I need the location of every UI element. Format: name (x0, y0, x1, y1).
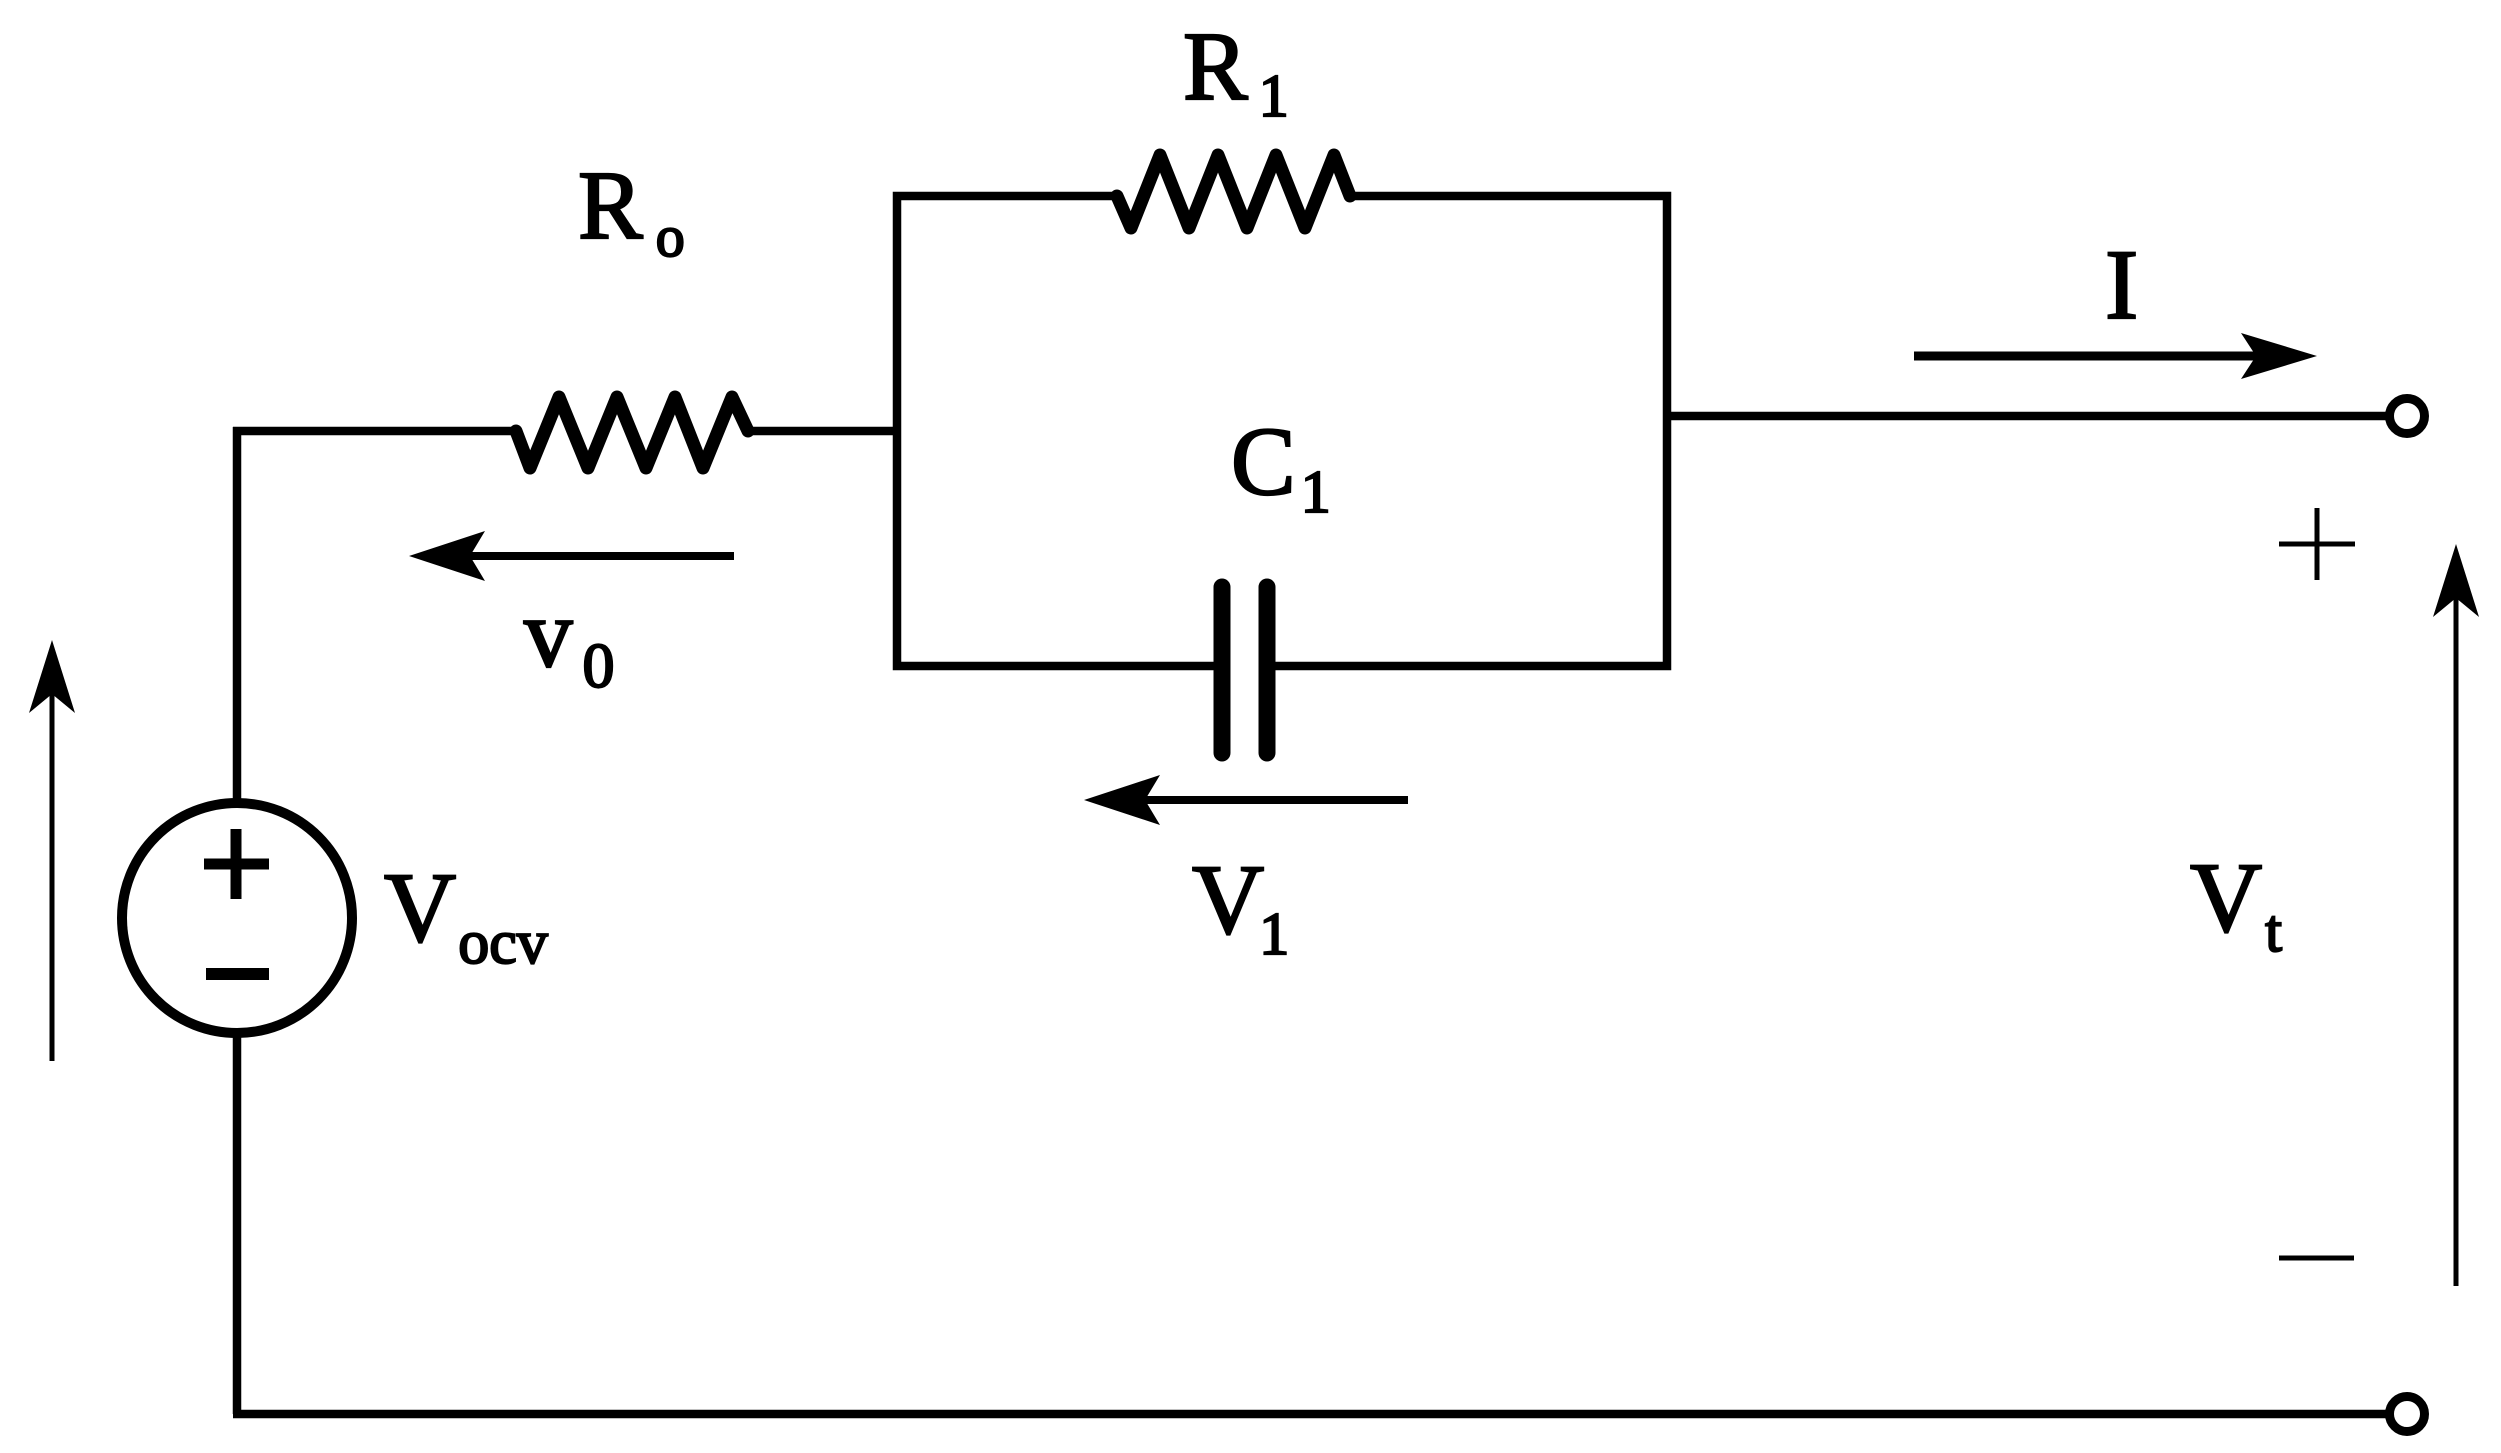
plus sign Vt (2279, 508, 2355, 580)
arrow Vt (terminal voltage, pointing up) (2433, 544, 2479, 1286)
resistor Ro (516, 397, 748, 468)
wire left vertical upper (source + to top wire) (233, 427, 242, 803)
arrow left (source polarity, pointing up) (29, 640, 75, 1061)
wire left vertical lower (source - to bottom wire) (233, 1033, 242, 1414)
arrow I (current direction) (1914, 333, 2317, 379)
capacitor C1 (1222, 587, 1267, 753)
arrow v0 (voltage across Ro, pointing left) (409, 531, 734, 581)
minus sign Vt (2279, 1256, 2354, 1261)
plus sign inside source (204, 829, 269, 899)
minus sign inside source (206, 968, 269, 980)
voltage source Vocv (122, 803, 352, 1033)
terminal top-right (2390, 399, 2425, 434)
wire bottom horizontal (233, 1410, 2387, 1419)
wire from Ro to RC block (748, 427, 897, 436)
wire top-left horizontal from source branch to Ro (233, 427, 516, 436)
arrow V1 (voltage across C1, pointing left) (1084, 775, 1408, 825)
terminal bottom-right (2390, 1397, 2425, 1432)
resistor R1 (1117, 155, 1350, 228)
wire output to terminal (1667, 412, 2387, 421)
svg-text:I: I (2105, 229, 2138, 340)
wire RC parallel loop frame (node between Ro and output) (897, 196, 1667, 666)
